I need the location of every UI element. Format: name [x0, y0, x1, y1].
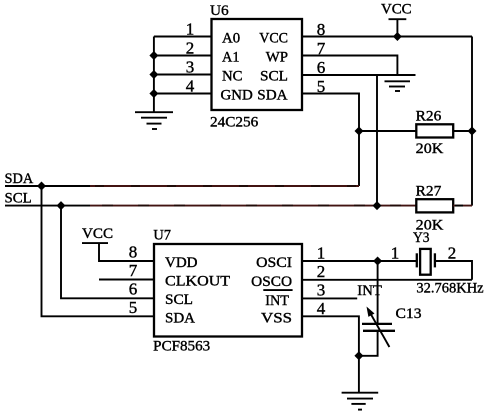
- svg-text:8: 8: [129, 243, 138, 262]
- U7 pin number 1: [317, 244, 326, 263]
- U6 pin name A1: [222, 50, 240, 66]
- U6 pin name A0: [222, 31, 240, 47]
- wire U6 pin2: [154, 55, 212, 57]
- U6 pin number 8: [317, 20, 326, 39]
- svg-text:VCC: VCC: [381, 2, 412, 18]
- wire U7 pin3 INT stub: [302, 297, 357, 299]
- U6 pin number 6: [317, 58, 326, 77]
- svg-text:5: 5: [129, 298, 138, 317]
- svg-text:SCL: SCL: [260, 69, 288, 85]
- svg-text:7: 7: [129, 261, 138, 280]
- svg-text:NC: NC: [222, 69, 243, 85]
- svg-text:VCC: VCC: [82, 226, 113, 242]
- junction dot VSS ground node: [354, 351, 363, 360]
- wire U6 pin5 down to SDA rail: [302, 94, 359, 187]
- U7 pin name VSS: [261, 311, 292, 327]
- U6 pin name NC: [222, 69, 243, 85]
- wire U6 pin1: [154, 36, 212, 38]
- wire R27 right to rail: [453, 205, 472, 207]
- IC U6 body: [212, 19, 303, 110]
- svg-text:A1: A1: [222, 50, 240, 66]
- svg-text:OSCO: OSCO: [251, 274, 292, 290]
- U7 pin name OSCI: [256, 255, 292, 271]
- svg-text:6: 6: [129, 280, 138, 299]
- wire U7 pin4 VSS to ground: [302, 316, 359, 392]
- svg-text:R26: R26: [416, 109, 442, 125]
- U7 part number PCF8563: [153, 339, 210, 355]
- U6 pin name VCC: [259, 31, 288, 47]
- junction dot OSCI: [373, 257, 382, 266]
- wire R26 left: [359, 130, 416, 132]
- svg-text:SDA: SDA: [165, 311, 195, 327]
- svg-text:U6: U6: [210, 3, 229, 19]
- ground symbol at U6 WP: [385, 81, 411, 91]
- U7 pin number 6: [129, 280, 138, 299]
- U6 pin number 3: [186, 58, 195, 77]
- U7 pin number 7: [129, 261, 138, 280]
- ground symbol at U6 bus: [135, 112, 173, 129]
- U6 pin number 5: [317, 77, 326, 96]
- crystal pin label 2: [448, 244, 457, 263]
- junction dot U6 bus pin2: [149, 51, 158, 60]
- crystal Y3: [417, 249, 435, 275]
- svg-text:SDA: SDA: [5, 171, 34, 187]
- junction dot R26 left: [355, 127, 364, 136]
- wire U7 pin2 OSCO: [302, 279, 472, 281]
- svg-text:INT: INT: [265, 293, 289, 309]
- wire crystal right to OSCO: [435, 261, 472, 280]
- junction dot SCL rail at vertical: [373, 201, 382, 210]
- resistor R27: [416, 199, 453, 212]
- wire OSCI down to C13: [377, 261, 379, 324]
- U6 pin name GND: [221, 88, 253, 104]
- wire U6 pin8 to right rail: [302, 36, 472, 38]
- R26 value 20K: [416, 141, 444, 157]
- svg-text:20K: 20K: [416, 141, 444, 157]
- node label SCL: [5, 191, 32, 207]
- crystal pin label 1: [391, 244, 400, 263]
- svg-text:Y3: Y3: [413, 230, 430, 246]
- wire SCL rail: [5, 205, 416, 207]
- U6 pin number 7: [317, 39, 326, 58]
- svg-text:1: 1: [391, 244, 400, 263]
- svg-text:4: 4: [317, 299, 326, 318]
- node label INT: [357, 283, 382, 299]
- IC U7 body: [154, 244, 302, 337]
- U7 pin name VDD: [165, 255, 198, 271]
- U7 pin name INT with overline: [263, 290, 292, 309]
- junction dot SCL rail: [57, 201, 66, 210]
- wire R26 right: [453, 130, 472, 132]
- U6 pin name WP: [266, 50, 288, 66]
- wire U6 pin3: [154, 74, 212, 76]
- svg-text:VDD: VDD: [165, 255, 198, 271]
- wire U6 pin7: [302, 56, 397, 76]
- U7 pin name CLKOUT: [165, 274, 230, 290]
- wire U7 pin1 OSCI: [302, 260, 417, 262]
- junction dot U6 bus pin3: [149, 70, 158, 79]
- svg-text:VCC: VCC: [259, 31, 288, 47]
- wire SDA vertical to U7 pin5: [42, 186, 155, 316]
- wire right vertical rail: [471, 37, 473, 206]
- R27 value 20K: [416, 218, 444, 234]
- U6 pin name SDA: [257, 88, 287, 104]
- U7 pin name SDA: [165, 311, 195, 327]
- R26 reference label: [416, 109, 442, 125]
- svg-text:2: 2: [448, 244, 457, 263]
- svg-text:SDA: SDA: [257, 88, 287, 104]
- VCC power symbol top: [381, 2, 412, 37]
- junction dot SDA rail: [37, 182, 46, 191]
- svg-text:OSCI: OSCI: [256, 255, 292, 271]
- U7 pin number 2: [317, 262, 326, 281]
- svg-text:24C256: 24C256: [210, 115, 259, 131]
- svg-text:1: 1: [317, 244, 326, 263]
- wire U6 pin6 with ground bar: [302, 74, 416, 76]
- svg-text:R27: R27: [416, 184, 442, 200]
- wire U6 pin4: [154, 93, 212, 95]
- junction dot U6 bus pin4: [149, 89, 158, 98]
- U6 pin number 2: [186, 39, 195, 58]
- svg-text:GND: GND: [221, 88, 253, 104]
- U6 reference label: [210, 3, 229, 19]
- svg-text:PCF8563: PCF8563: [153, 339, 210, 355]
- U7 reference label: [153, 227, 171, 243]
- svg-text:SCL: SCL: [5, 191, 32, 207]
- R27 reference label: [416, 184, 442, 200]
- wire C13 bottom to ground node: [359, 331, 378, 356]
- svg-text:32.768KHz: 32.768KHz: [416, 281, 484, 297]
- VCC power symbol at U7: [82, 226, 113, 243]
- junction dot VCC on pin8 wire: [393, 32, 402, 41]
- U7 pin name OSCO: [251, 274, 292, 290]
- svg-text:U7: U7: [153, 227, 171, 243]
- Y3 value 32.768KHz: [416, 281, 484, 297]
- wire U7 pin7 stub: [99, 279, 154, 281]
- U7 pin number 3: [317, 281, 326, 300]
- U7 pin number 5: [129, 298, 138, 317]
- capacitor C13 variable: [362, 307, 395, 348]
- junction dot R26 right on rail: [468, 127, 477, 136]
- wire U6 left bus vertical: [153, 37, 155, 113]
- U6 part number 24C256: [210, 115, 259, 131]
- U7 pin number 4: [317, 299, 326, 318]
- Y3 reference label: [413, 230, 430, 246]
- svg-text:WP: WP: [266, 50, 288, 66]
- svg-text:A0: A0: [222, 31, 240, 47]
- wire SDA rail: [5, 185, 359, 187]
- svg-text:3: 3: [317, 281, 326, 300]
- ground symbol bottom: [342, 393, 379, 410]
- svg-text:C13: C13: [396, 306, 422, 322]
- svg-text:SCL: SCL: [165, 292, 193, 308]
- resistor R26: [416, 124, 453, 137]
- svg-text:2: 2: [317, 262, 326, 281]
- C13 reference label: [396, 306, 422, 322]
- U6 pin number 4: [186, 77, 195, 96]
- U7 pin name SCL: [165, 292, 193, 308]
- U6 pin number 1: [186, 20, 195, 39]
- wire WP-ground down to SCL rail: [376, 75, 378, 206]
- U7 pin number 8: [129, 243, 138, 262]
- U6 pin name SCL: [260, 69, 288, 85]
- node label SDA: [5, 171, 34, 187]
- wire SCL vertical to U7 pin6: [61, 206, 154, 299]
- svg-text:VSS: VSS: [261, 311, 292, 327]
- wire VCC to U7 pin8: [99, 243, 154, 261]
- svg-text:CLKOUT: CLKOUT: [165, 274, 230, 290]
